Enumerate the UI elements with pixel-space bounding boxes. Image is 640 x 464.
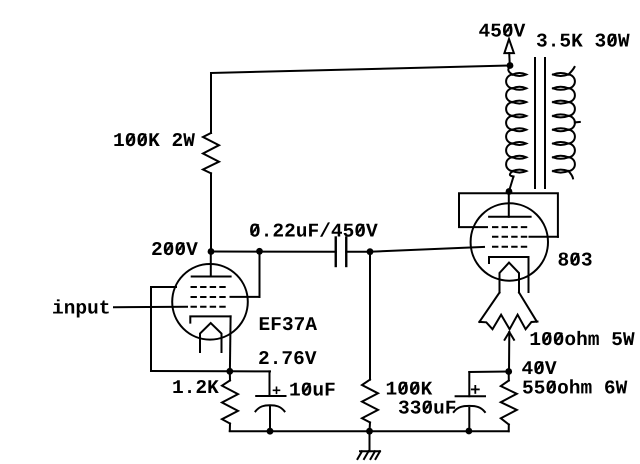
label 40V: [522, 361, 556, 374]
tube 803 suppressor grid g3: [492, 226, 528, 228]
filament flare left: [479, 293, 499, 322]
ground rail: [230, 430, 509, 432]
wire cathode node to 10uF: [230, 370, 270, 372]
wire coupling cap to grid node: [346, 251, 370, 253]
tube EF37A heater: [200, 323, 222, 352]
wire suppressor loop to cathode node: [151, 370, 230, 372]
wire grid node to 803 grid: [370, 247, 484, 252]
tube 803 filament tent: [500, 263, 520, 293]
tube 803 envelope: [471, 203, 548, 280]
node 10uF bottom junction dot: [267, 428, 274, 435]
wire grid node down to 100K: [369, 252, 371, 380]
label 2.76V: [259, 351, 316, 364]
wire suppressor out left: [151, 286, 176, 288]
tube EF37A screen grid g2: [191, 296, 227, 298]
wire 100K 2W to 200V node: [210, 173, 212, 251]
resistor 100K grid leak: [362, 380, 378, 423]
tube EF37A control grid g1: [191, 306, 227, 308]
wire 40V node to 330uF: [469, 371, 508, 374]
label 550ohm 6W: [523, 379, 627, 393]
capacitor 330uF: [454, 372, 485, 431]
label 330uF: [399, 401, 455, 414]
wire input to g1: [114, 306, 187, 308]
resistor 100K 2W: [203, 133, 219, 173]
label 10uF: [290, 383, 334, 396]
wire 200V node to coupling cap: [211, 251, 336, 253]
ground symbol: [358, 431, 381, 459]
transformer T1 core: [535, 58, 545, 188]
tube EF37A anode: [192, 252, 231, 277]
label input: [53, 299, 109, 317]
wire screen stub 803: [530, 236, 558, 238]
label 803: [559, 253, 592, 266]
label 0.22uF/450V: [250, 222, 378, 236]
tube 803 anode: [489, 193, 530, 217]
wire 100K to ground rail: [369, 422, 372, 431]
label 100K: [387, 382, 433, 395]
tube 803 screen grid g2: [492, 236, 528, 238]
wire suppressor stub 803: [459, 226, 487, 228]
arrow 450V supply: [504, 39, 514, 66]
label 3.5K 30W: [537, 34, 630, 47]
wire suppressor loop down: [150, 287, 152, 371]
label 100ohm 5W: [531, 331, 635, 345]
tube EF37A cathode: [190, 316, 230, 371]
tube 803 cathode: [489, 257, 529, 292]
node 803 plate junction dot: [506, 188, 513, 195]
resistor 100ohm 5W hum balance: [479, 315, 537, 330]
capacitor 10uF: [256, 371, 286, 431]
wire primary to 803 plate node: [509, 177, 513, 191]
filament flare right: [519, 293, 537, 322]
wire screen tap vertical: [259, 251, 261, 297]
resistor 1.2K: [222, 371, 238, 431]
transformer secondary tap: [575, 121, 580, 123]
label 1.2K: [173, 380, 219, 393]
node 803 grid node dot: [367, 248, 374, 255]
node 40V junction dot: [505, 368, 512, 375]
tube 803 grid cap box: [459, 193, 558, 237]
label 100K 2W: [114, 133, 195, 146]
tube EF37A envelope: [172, 264, 248, 340]
node screen tap junction dot: [256, 248, 263, 255]
label 200V: [152, 242, 198, 255]
node ground junction dot: [366, 428, 373, 435]
resistor 550ohm 6W: [501, 372, 517, 432]
node 200V junction dot: [208, 248, 215, 255]
tube 803 control grid g1: [492, 246, 528, 248]
node 330uF bottom junction dot: [466, 428, 473, 435]
wiper arrow to filament: [505, 332, 514, 371]
wire B+ top rail: [211, 66, 510, 74]
transformer T1 primary winding: [506, 66, 526, 177]
label EF37A: [260, 317, 317, 330]
node EF37A cathode junction dot: [226, 368, 233, 375]
node 450V junction dot: [507, 62, 514, 69]
capacitor 0.22uF/450V: [336, 238, 347, 267]
tube EF37A suppressor grid g3: [191, 286, 227, 288]
transformer T1 secondary winding: [553, 67, 575, 178]
wire B+ drop to 100K 2W: [210, 73, 212, 133]
label 450V: [479, 24, 525, 37]
wire screen g2 out right: [231, 296, 260, 298]
